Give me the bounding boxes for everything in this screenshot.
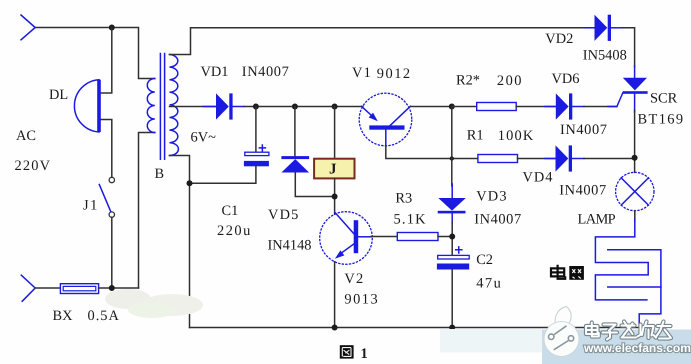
svg-text:9013: 9013 [344,291,379,307]
electric grid electrode A [595,219,648,300]
wire V2 base to R3 [371,236,397,238]
wire fuse to transformer-primary bottom [99,287,139,289]
switch J1 [99,177,114,217]
wire VD6 to SCR gate [584,106,617,108]
fuse BX [60,284,98,294]
svg-text:LAMP: LAMP [578,212,616,228]
svg-text:IN4007: IN4007 [559,183,607,199]
wire VD5 bottom to relay junction [295,173,334,197]
wire secondary bottom vertical [170,156,190,328]
wire arrow to fuse [35,287,60,289]
node J tap [332,104,338,110]
wire SCR cathode to lamp node [634,110,636,172]
wire DL branch lower [100,120,112,178]
svg-text:IN4148: IN4148 [268,238,312,254]
svg-text:DL: DL [49,87,68,103]
watermark pale patch left [440,329,542,353]
svg-text:VD6: VD6 [552,71,580,87]
svg-text:J1: J1 [83,198,99,214]
wire secondary tap to VD1 [170,106,217,108]
svg-text:VD3: VD3 [476,189,508,205]
node C2 rail junction [449,325,455,331]
label figure caption [340,345,368,362]
watermark logo ball [544,322,579,357]
wire SCR gate diagonal [608,93,623,107]
svg-text:IN5408: IN5408 [583,48,627,64]
transformer B secondary coil [170,55,179,156]
svg-text:100K: 100K [498,128,535,144]
svg-text:IN4007: IN4007 [560,122,608,138]
watermark logo leaf [555,307,571,328]
wire main rail after VD1 [244,106,363,108]
diode VD2 [584,15,622,41]
wire bottom rail [190,327,640,329]
svg-text:BX: BX [53,308,74,324]
svg-text:220V: 220V [15,158,52,174]
watermark logo link [549,326,574,350]
wire VD5 branch top [294,107,296,157]
svg-text:SCR: SCR [650,91,678,107]
wire grid to bottom rail [638,324,640,328]
svg-text:C1: C1 [222,203,239,219]
svg-text:200: 200 [497,73,523,89]
resistor R1 [478,155,556,163]
wire top rail to SCR anode [622,28,635,67]
capacitor C1 [244,145,269,166]
wire C1 bottom to transformer return [190,166,256,183]
svg-text:6V~: 6V~ [191,130,217,146]
resistor R3 [397,233,452,241]
wire C2 to bottom rail [451,270,453,328]
svg-text:BT169: BT169 [638,112,685,128]
node V2 emitter rail junction [332,325,338,331]
node lamp junction [632,155,638,161]
transformer B core [160,54,164,160]
svg-text:www.elecfans.com: www.elecfans.com [583,341,691,355]
wire V2 emitter to bottom rail [334,262,336,328]
wire vertical node to VD3 [451,107,453,187]
wire V1 base down and right [386,146,478,159]
transformer B primary coil [147,79,155,133]
transistor V1 9012 [359,93,412,146]
wire J coil bottom [334,178,336,214]
diode VD4 [545,145,584,171]
wire VD4 to lamp node [584,158,635,160]
electric grid electrode B [608,250,661,325]
watermark band [542,330,691,364]
connector arrow top-left [21,15,35,40]
diode VD5 [281,156,309,172]
svg-text:1: 1 [361,346,368,362]
svg-text:R1: R1 [467,128,484,144]
svg-text:VD5: VD5 [268,207,300,223]
svg-text:V1: V1 [352,65,372,81]
node V1 collector junction [449,104,455,110]
node A junction top-left [109,25,115,31]
node transformer return junction [187,180,193,186]
lamp LAMP [616,172,654,210]
node base/R1 cross junction [450,156,454,160]
svg-text:5.1K: 5.1K [394,212,427,228]
wire V1 collector to node [410,106,452,108]
svg-text:C2: C2 [476,252,493,268]
diode VD3 [438,184,466,223]
wire DL branch upper [100,28,112,94]
diode VD6 [545,93,584,119]
electric grid electrode B stub [608,286,661,288]
svg-text:220u: 220u [217,223,252,239]
wire lamp to grid [634,211,636,222]
wire J coil top [334,107,336,159]
transistor V2 9013 [320,212,373,265]
node bottom-left junction [109,285,115,291]
svg-text:47u: 47u [476,275,502,291]
bell DL [74,80,100,132]
svg-text:IN4007: IN4007 [242,64,290,80]
node C1 tap [253,104,259,110]
wire VD3 to C2 node [451,222,453,255]
wire primary-bottom vertical [139,133,155,289]
diode VD1 [203,93,244,119]
svg-text:VD1: VD1 [201,64,229,80]
node R3/VD3/C2 junction [449,234,455,240]
wire J1 to bottom junction [111,217,113,288]
node VD5 tap [292,104,298,110]
thyristor SCR BT169 [623,66,648,112]
svg-text:R3: R3 [395,191,412,207]
wire top-left rail [35,28,155,79]
watermark smudge near fuse [105,289,203,318]
svg-text:V2: V2 [344,271,364,287]
connector arrow bottom-left [21,275,35,301]
svg-text:B: B [155,166,165,182]
watermark brand glyphs [586,322,671,340]
capacitor C2 [437,247,469,270]
svg-text:9012: 9012 [377,66,412,82]
svg-text:R2*: R2* [456,73,480,89]
svg-text:0.5A: 0.5A [88,308,120,324]
node relay/V2 junction [332,194,338,200]
svg-text:AC: AC [16,128,36,144]
relay coil J [314,159,354,179]
wire C1 branch [255,107,257,153]
label grid CJK dianwang [551,265,584,280]
resistor R2 [452,103,556,111]
svg-text:J: J [329,162,337,178]
svg-text:VD2: VD2 [545,31,573,47]
svg-text:IN4007: IN4007 [474,212,522,228]
wire secondary top to top rail [170,28,595,55]
svg-text:VD4: VD4 [523,170,554,186]
